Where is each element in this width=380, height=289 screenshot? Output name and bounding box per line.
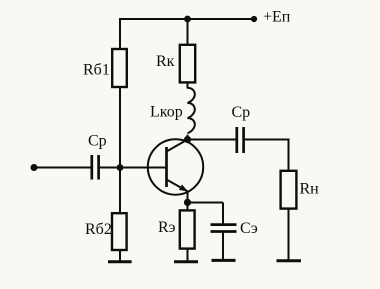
wire R61 bottom to base node to R62 top: [119, 87, 121, 214]
svg-text:Rк: Rк: [156, 53, 175, 70]
svg-text:Ср: Ср: [88, 133, 107, 150]
node base junction: [117, 164, 124, 171]
capacitor Ce: [211, 220, 258, 237]
wire Ce bottom plate to ground: [222, 232, 224, 261]
inductor Lkor: [150, 88, 195, 133]
wire emitter node to Ce branch: [188, 202, 224, 204]
wire collector node to output Cp: [188, 139, 237, 141]
wire coil bottom to collector node: [187, 135, 189, 141]
svg-text:Rэ: Rэ: [158, 219, 176, 236]
svg-text:Lкор: Lкор: [150, 104, 183, 121]
capacitor Cp output: [232, 104, 251, 153]
svg-text:+Еп: +Еп: [263, 9, 291, 26]
node rail junction: [184, 16, 191, 23]
svg-text:Rб2: Rб2: [85, 221, 112, 238]
ground under Rn: [277, 259, 302, 262]
wire top supply rail: [119, 18, 254, 20]
node supply terminal: [251, 16, 257, 22]
resistor Rk: [156, 45, 195, 83]
transistor VT1: [148, 139, 203, 194]
wire Ce branch down to plates: [222, 203, 224, 225]
resistor R61: [83, 49, 127, 87]
svg-text:Ср: Ср: [232, 104, 251, 121]
svg-text:Rн: Rн: [300, 181, 320, 198]
ground under Re: [174, 260, 198, 263]
node input terminal: [31, 164, 38, 171]
resistor R62: [85, 213, 127, 250]
capacitor Cp input: [88, 133, 107, 180]
wire emitter node to Re top: [187, 191, 189, 211]
resistor Re: [158, 210, 195, 248]
svg-text:Rб1: Rб1: [83, 62, 110, 79]
svg-text:Сэ: Сэ: [240, 220, 258, 237]
ground under R62: [108, 260, 132, 263]
node collector junction: [184, 136, 191, 143]
wire input lead to Cp: [34, 167, 91, 169]
wire Re bottom to ground: [187, 249, 189, 262]
node emitter junction: [184, 199, 191, 206]
wire left branch top drop to R61: [119, 18, 121, 50]
wire Rn bottom to ground: [288, 209, 290, 261]
wire Rk bottom to coil: [187, 82, 189, 89]
wire R62 bottom to ground: [119, 250, 121, 262]
ground under Ce: [212, 259, 236, 262]
wire output Cp to right corner: [244, 139, 289, 141]
resistor Rn: [281, 171, 320, 209]
wire middle branch drop to Rk: [187, 19, 189, 46]
wire right corner down to Rn: [288, 139, 290, 172]
wire Cp to base: [99, 167, 166, 169]
